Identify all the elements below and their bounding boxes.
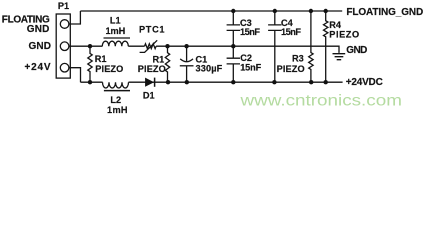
capacitor C1 bottom lead: [186, 66, 188, 82]
capacitor C2 leads: [232, 46, 234, 82]
P1 pin 3 (+24V): [60, 63, 69, 72]
junction: PTC1/R1 second mid rail: [165, 44, 169, 48]
svg-text:R3: R3: [292, 53, 304, 63]
svg-text:15nF: 15nF: [281, 27, 301, 37]
diode D1 cathode bar: [154, 78, 156, 87]
svg-text:L2: L2: [110, 95, 121, 105]
wire: top rail FLOATING_GND net: [80, 10, 342, 12]
capacitor C1 curved plate: [180, 59, 193, 62]
junction: C2/C3 mid rail: [231, 44, 235, 48]
inductor L1 core bar: [104, 37, 131, 39]
svg-text:D1: D1: [143, 91, 155, 101]
wire: bottom rail +24V net: [81, 81, 343, 83]
svg-text:PIEZO: PIEZO: [277, 64, 305, 74]
svg-text:330µF: 330µF: [196, 64, 223, 74]
svg-text:C2: C2: [240, 53, 252, 63]
junction: C1 bottom rail: [185, 80, 189, 84]
junction: R3 bottom rail: [309, 80, 313, 84]
wire: pin3 to bottom rail: [69, 68, 81, 83]
svg-text:www.cntronics.com: www.cntronics.com: [239, 91, 402, 109]
junction: R4 top rail: [324, 9, 328, 13]
svg-text:R1: R1: [95, 54, 107, 64]
resistor R3 column and zigzag: [309, 11, 313, 82]
svg-text:1mH: 1mH: [107, 105, 128, 115]
junction: R4 bottom rail: [324, 80, 328, 84]
ground symbol (GND): [333, 54, 346, 60]
svg-text:FLOATING_GND: FLOATING_GND: [346, 7, 423, 18]
svg-text:1mH: 1mH: [106, 26, 126, 36]
junction: R1 first mid rail: [88, 44, 92, 48]
wire: middle rail GND net from P1 pin2 to ground symbol: [69, 46, 339, 53]
svg-text:+24VDC: +24VDC: [346, 77, 383, 88]
capacitor C4 leads: [274, 11, 276, 82]
diode D1 anode wire handled by rail; triangle: [145, 78, 154, 87]
inductor L1 coil: [102, 41, 128, 46]
svg-text:P1: P1: [58, 1, 69, 11]
P1 pin 2 (GND): [60, 42, 69, 51]
svg-text:15nF: 15nF: [240, 63, 261, 73]
resistor R1 (first, piezo bleed) zigzag: [88, 46, 92, 82]
svg-text:PIEZO: PIEZO: [95, 64, 123, 74]
capacitor C1 straight plate: [180, 65, 194, 67]
junction: C2 bottom rail: [231, 80, 235, 84]
inductor L2 coil: [103, 82, 129, 88]
junction: C1 mid rail: [184, 44, 188, 48]
capacitor C3 plates: [227, 25, 240, 31]
svg-text:PIEZO: PIEZO: [329, 29, 359, 39]
svg-text:PIEZO: PIEZO: [138, 64, 166, 74]
svg-text:+24V: +24V: [25, 62, 51, 73]
junction: R1 first bottom rail: [88, 80, 92, 84]
junction: R3 top rail: [309, 9, 313, 13]
junction: C4 bottom rail: [272, 80, 276, 84]
capacitor C1 (polarized) top lead: [186, 46, 188, 61]
PTC thermistor PTC1 zigzag: [145, 44, 157, 49]
inductor L2 core bar: [104, 90, 130, 92]
wire: pin1 to top rail: [69, 11, 80, 24]
svg-text:GND: GND: [346, 45, 367, 56]
junction: R1 second bottom rail: [166, 80, 170, 84]
PTC thermistor PTC1 diagonal strike: [140, 40, 158, 52]
svg-text:L1: L1: [110, 16, 121, 26]
svg-text:PTC1: PTC1: [139, 24, 165, 34]
junction: C3 top rail: [231, 9, 235, 13]
capacitor C2 plates: [227, 58, 240, 64]
resistor R4 column and zigzag: [324, 11, 328, 82]
capacitor C4 plates: [268, 25, 281, 31]
junction: C4 top rail: [273, 9, 277, 13]
capacitor C3 leads: [232, 11, 234, 46]
P1 pin 1 (FLOATING GND): [60, 20, 69, 29]
svg-text:15nF: 15nF: [240, 27, 260, 37]
connector P1 body: [56, 14, 70, 78]
svg-text:GND: GND: [29, 41, 52, 52]
resistor R1 (second) zigzag: [165, 46, 169, 82]
svg-text:GND: GND: [27, 24, 50, 35]
